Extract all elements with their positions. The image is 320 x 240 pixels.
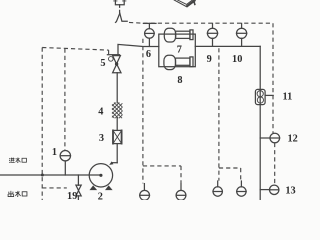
static mixer 4 [112,103,122,118]
sampling gauge B [176,190,186,200]
UV lamp 7 [164,28,175,42]
control valve 5 [107,54,119,56]
drain valve 19 [76,185,81,190]
gauge 6 stems and top bar [148,38,150,46]
dashed line to valve 19 [42,187,67,189]
reactor vessel box [159,34,196,67]
sampling gauge C stem [217,181,219,187]
signal dashed lines [42,22,275,200]
svg-text:12: 12 [287,133,297,144]
svg-text:19: 19 [67,191,77,200]
label 13 [285,186,295,197]
wire valve 5 up and right to reactor [118,44,159,54]
svg-text:5: 5 [100,58,105,69]
dashed left-middle vertical [142,39,144,184]
label 2 [98,192,103,203]
label 7 [177,45,182,56]
gauge 13 [270,185,279,194]
dashed top header line [129,21,273,24]
label 11 [283,92,293,103]
sampling gauge B stem [180,184,182,191]
label 3 [99,133,104,144]
node junction dot on inlet line [41,174,44,177]
dashed gauge1 signal vertical [64,49,66,151]
label inlet 进水口 [9,158,26,163]
label 1 [52,147,57,158]
vent arrow symbol [116,13,120,22]
dosing funnel tank [115,0,124,5]
label 8 [177,75,182,86]
svg-text:1: 1 [52,147,57,158]
drain valve 19 stem [77,175,79,200]
3D plate watermark [174,0,195,7]
wire gauge 13 tap [260,189,269,191]
dashed left vertical [41,48,43,201]
dashed middle vertical [218,48,220,180]
sampling gauge A [140,190,150,200]
label 5 [100,58,105,69]
dashed branch to gauge D [219,168,241,181]
sampling gauge A stem [143,184,145,191]
rotameter 11 [255,89,265,104]
wire right vertical main [259,46,261,200]
wire rotameter right tap [265,94,273,96]
svg-text:8: 8 [177,75,182,86]
dashed control header left [42,48,108,55]
svg-text:3: 3 [99,133,104,144]
check valve 3 [113,130,122,143]
gauge 10 stems [241,23,243,46]
wire tank stem [119,5,121,14]
wire reactor outlet to right [195,45,260,47]
gauge 1 stem [64,161,66,175]
svg-text:7: 7 [177,45,182,56]
label 12 [287,133,297,144]
label 6 [146,49,151,60]
gauge 1 [60,151,70,161]
svg-text:9: 9 [207,54,212,65]
sampling gauge C [213,187,222,196]
arrowhead into pump [109,161,113,165]
dashed right vertical [272,23,274,133]
gauge 12 [270,133,280,143]
svg-text:10: 10 [232,54,242,65]
label 9 [207,54,212,65]
svg-text:6: 6 [146,49,151,60]
gauge 6 [145,29,155,39]
svg-text:13: 13 [285,186,295,197]
sampling gauge D stem [240,181,242,187]
label outlet 出水口 [8,191,27,197]
svg-text:11: 11 [283,92,293,103]
gauge 10 [237,28,247,38]
svg-text:2: 2 [98,192,103,200]
wire 3 to 4 [116,118,118,130]
wire gauge 12 tap [260,137,270,139]
UV lamp 8 [164,55,176,69]
pump P2 [89,164,112,187]
gauge 9 stems [212,23,214,46]
sampling gauge D [237,187,246,196]
label 10 [232,54,242,65]
dashed branch to gauge B [143,166,181,183]
label 19 [67,191,77,202]
label 4 [98,107,103,118]
dashed gauge12 to gauge13 [274,143,276,185]
wire inlet main line [0,174,101,176]
gauge 9 [207,28,217,38]
wire pump discharge riser [116,144,118,163]
wire 4 to valve 5 [116,73,118,103]
svg-text:4: 4 [98,107,103,118]
